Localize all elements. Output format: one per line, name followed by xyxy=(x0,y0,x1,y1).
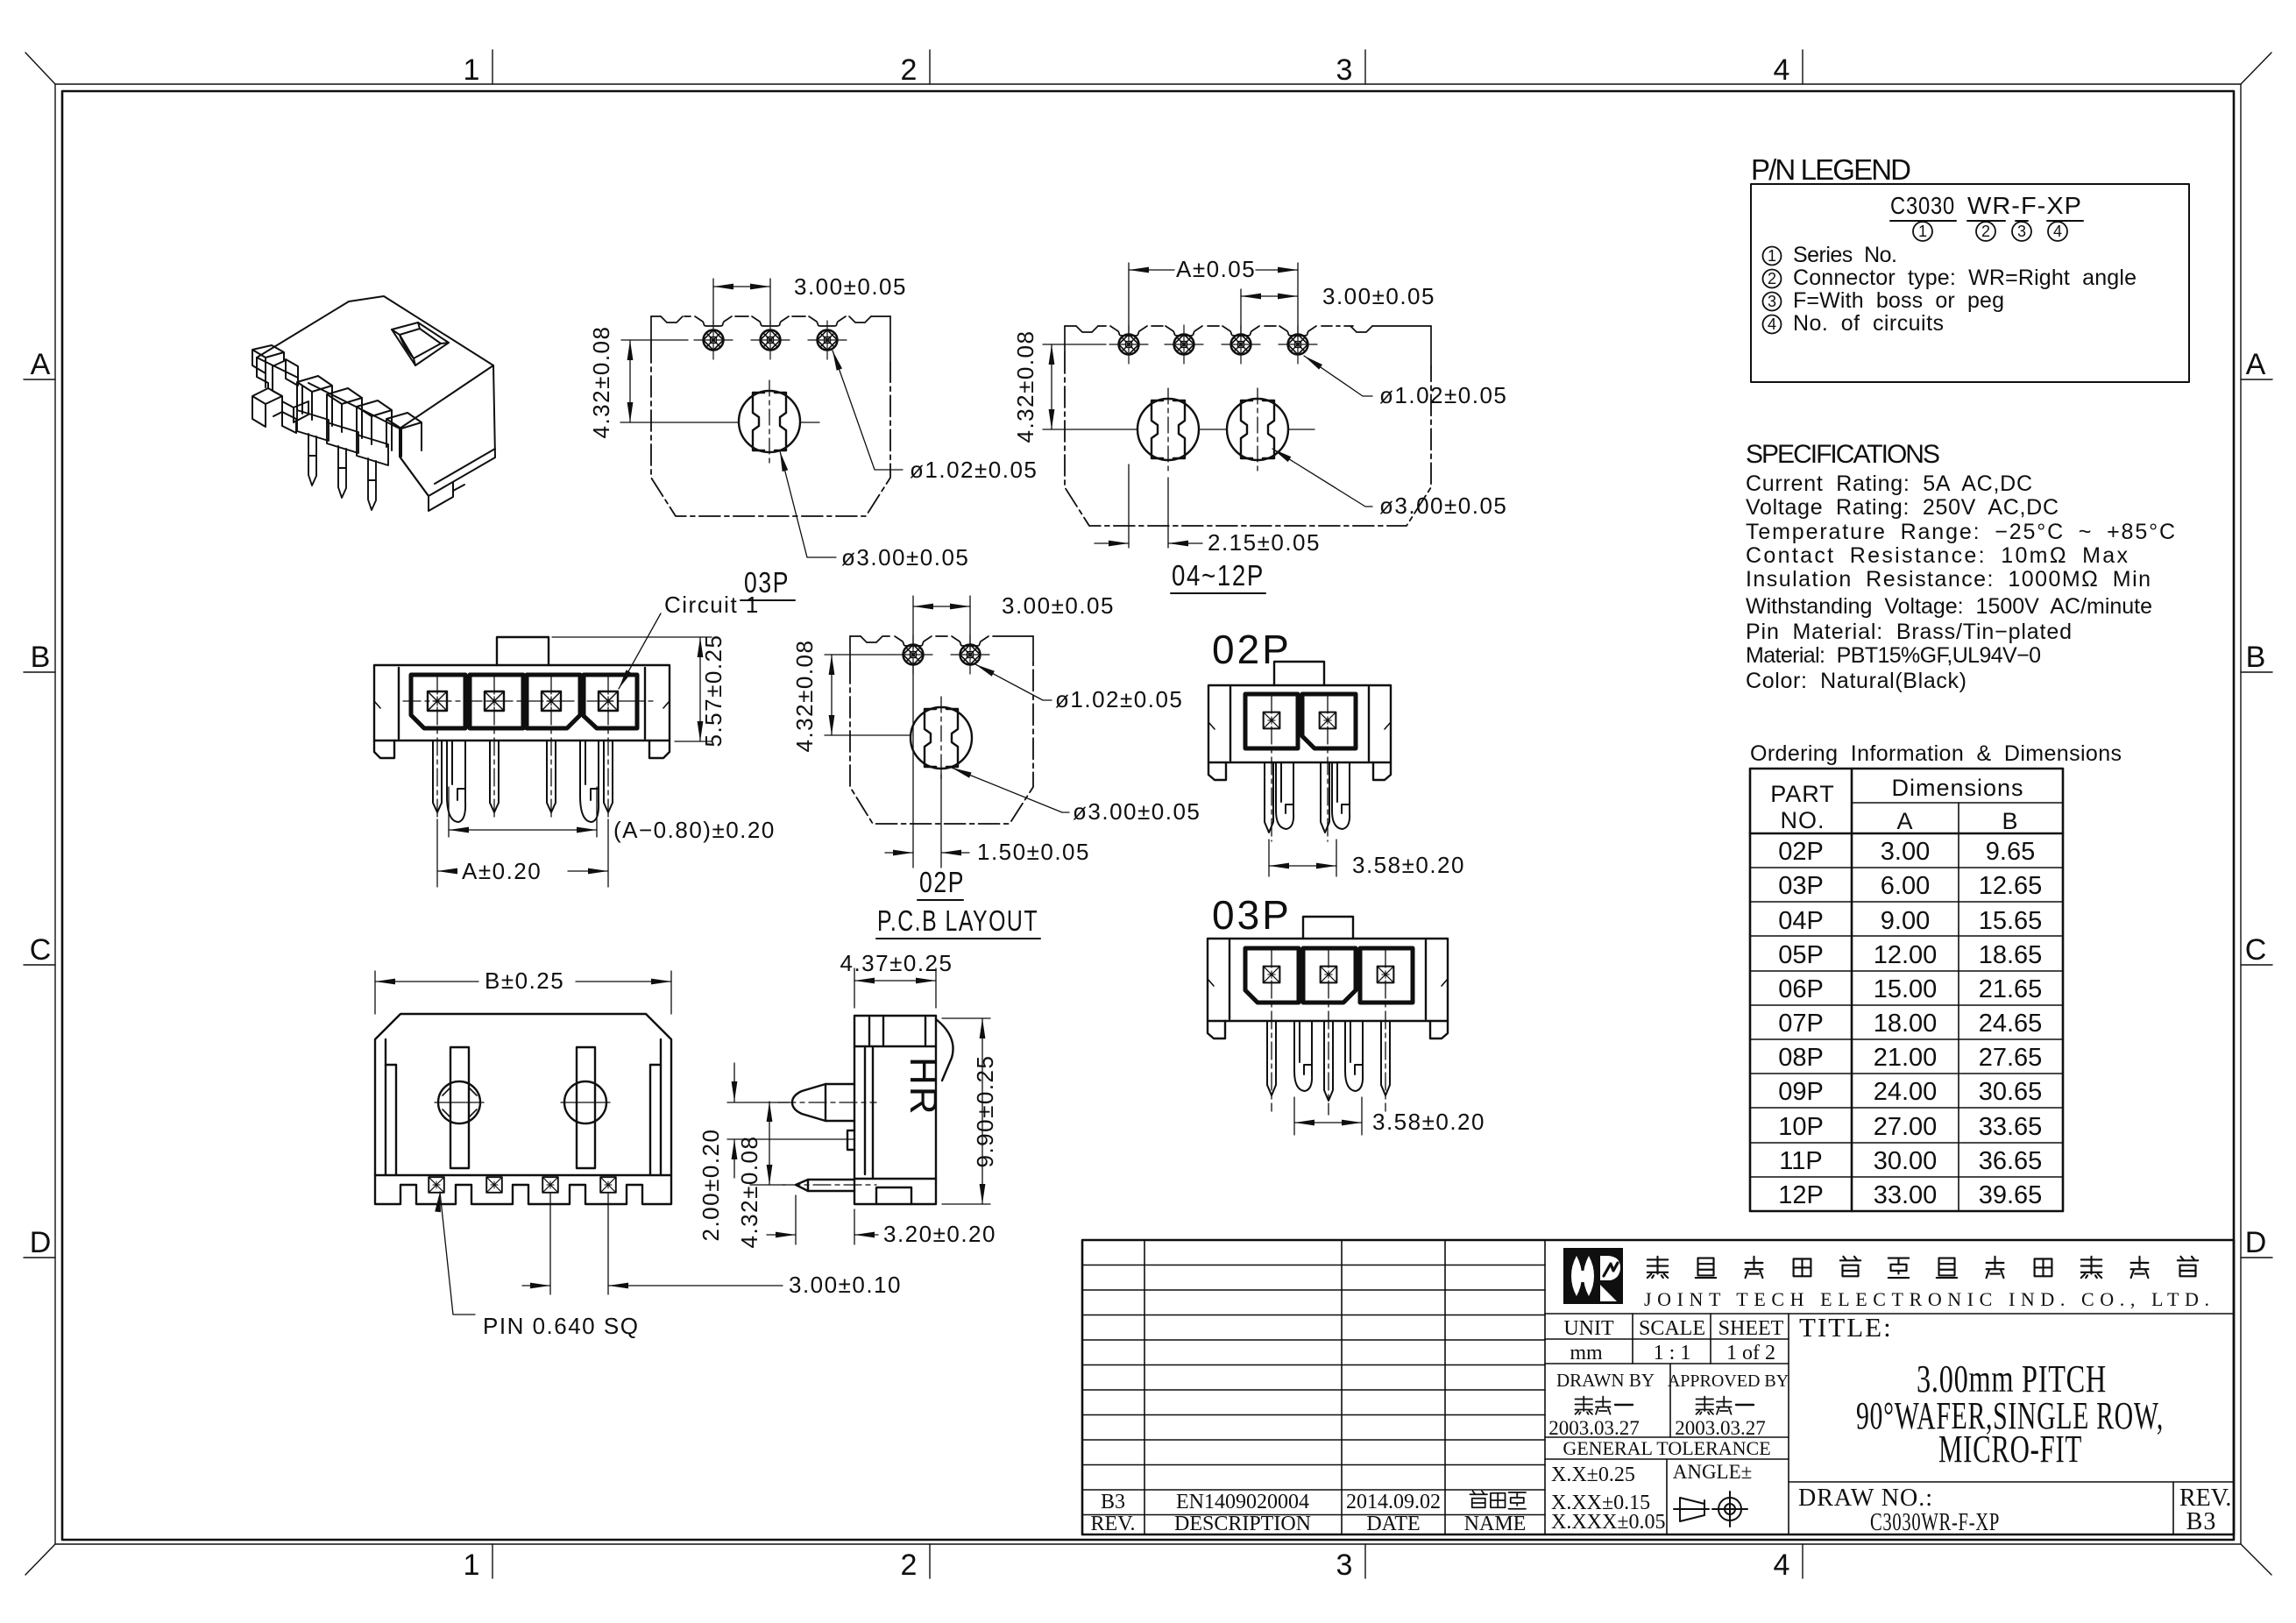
svg-text:04P: 04P xyxy=(1778,907,1824,935)
svg-text:2: 2 xyxy=(1981,223,1990,240)
svg-text:3.00: 3.00 xyxy=(1881,838,1930,866)
svg-text:Ordering Information & Dimensi: Ordering Information & Dimensions xyxy=(1750,741,2122,766)
svg-text:4: 4 xyxy=(1774,53,1790,87)
svg-text:REV.: REV. xyxy=(1091,1513,1136,1535)
svg-text:UNIT: UNIT xyxy=(1563,1317,1614,1340)
svg-text:4.37±0.25: 4.37±0.25 xyxy=(840,950,953,976)
svg-text:X.X±0.25: X.X±0.25 xyxy=(1551,1464,1635,1486)
svg-text:mm: mm xyxy=(1570,1342,1603,1364)
svg-text:4.32±0.08: 4.32±0.08 xyxy=(1012,330,1038,443)
svg-text:Voltage Rating: 250V AC,DC: Voltage Rating: 250V AC,DC xyxy=(1746,495,2059,520)
svg-text:24.65: 24.65 xyxy=(1979,1010,2043,1038)
svg-text:F=With boss or peg: F=With boss or peg xyxy=(1793,288,2005,313)
svg-text:07P: 07P xyxy=(1778,1010,1824,1038)
svg-text:1 of 2: 1 of 2 xyxy=(1726,1342,1775,1364)
svg-text:3.58±0.20: 3.58±0.20 xyxy=(1372,1109,1485,1135)
svg-text:D: D xyxy=(30,1226,52,1259)
svg-text:P.C.B LAYOUT: P.C.B LAYOUT xyxy=(877,904,1038,937)
svg-text:1: 1 xyxy=(464,1549,480,1582)
svg-text:B: B xyxy=(31,641,51,674)
svg-text:08P: 08P xyxy=(1778,1044,1824,1072)
svg-text:2003.03.27: 2003.03.27 xyxy=(1548,1417,1640,1439)
svg-text:02P: 02P xyxy=(1778,838,1824,866)
svg-text:2: 2 xyxy=(1768,270,1776,287)
svg-text:18.65: 18.65 xyxy=(1979,941,2043,969)
svg-text:C3030WR-F-XP: C3030WR-F-XP xyxy=(1870,1508,2000,1536)
svg-text:Circuit 1: Circuit 1 xyxy=(664,592,760,618)
svg-text:ø3.00±0.05: ø3.00±0.05 xyxy=(1379,493,1507,519)
svg-text:DATE: DATE xyxy=(1366,1513,1420,1535)
svg-text:WR-F-XP: WR-F-XP xyxy=(1967,192,2082,219)
svg-text:Dimensions: Dimensions xyxy=(1891,775,2023,801)
svg-text:03P: 03P xyxy=(1778,872,1824,900)
svg-text:27.65: 27.65 xyxy=(1979,1044,2043,1072)
svg-text:A: A xyxy=(31,348,51,381)
svg-text:Withstanding Voltage: 1500V AC: Withstanding Voltage: 1500V AC/minute xyxy=(1746,594,2153,619)
svg-text:B3: B3 xyxy=(1101,1491,1125,1513)
svg-text:EN1409020004: EN1409020004 xyxy=(1176,1491,1309,1513)
svg-text:1 : 1: 1 : 1 xyxy=(1654,1342,1691,1364)
svg-text:A: A xyxy=(1896,808,1913,834)
svg-text:Temperature Range: −25°C ~ +85: Temperature Range: −25°C ~ +85°C xyxy=(1746,520,2176,544)
svg-text:36.65: 36.65 xyxy=(1979,1147,2043,1175)
svg-text:33.00: 33.00 xyxy=(1874,1181,1938,1209)
svg-text:09P: 09P xyxy=(1778,1078,1824,1106)
svg-text:ø1.02±0.05: ø1.02±0.05 xyxy=(910,457,1038,483)
svg-text:05P: 05P xyxy=(1778,941,1824,969)
svg-text:21.65: 21.65 xyxy=(1979,975,2043,1003)
svg-text:12P: 12P xyxy=(1778,1181,1824,1209)
svg-text:Contact Resistance: 10mΩ Max: Contact Resistance: 10mΩ Max xyxy=(1746,543,2129,568)
svg-text:1: 1 xyxy=(464,53,480,87)
svg-text:11P: 11P xyxy=(1779,1147,1822,1175)
svg-text:5.57±0.25: 5.57±0.25 xyxy=(700,634,726,748)
svg-text:18.00: 18.00 xyxy=(1874,1010,1938,1038)
svg-text:30.00: 30.00 xyxy=(1874,1147,1938,1175)
svg-text:2003.03.27: 2003.03.27 xyxy=(1675,1417,1766,1439)
svg-text:3.00±0.05: 3.00±0.05 xyxy=(1322,283,1435,309)
svg-text:3: 3 xyxy=(1336,53,1353,87)
svg-text:4: 4 xyxy=(2053,223,2062,240)
svg-text:06P: 06P xyxy=(1778,975,1824,1003)
svg-text:DRAWN BY: DRAWN BY xyxy=(1556,1370,1655,1391)
svg-text:Series No.: Series No. xyxy=(1793,243,1898,267)
svg-text:1: 1 xyxy=(1768,247,1776,265)
svg-text:GENERAL TOLERANCE: GENERAL TOLERANCE xyxy=(1563,1437,1770,1459)
svg-text:12.00: 12.00 xyxy=(1874,941,1938,969)
svg-text:39.65: 39.65 xyxy=(1979,1181,2043,1209)
svg-text:(A−0.80)±0.20: (A−0.80)±0.20 xyxy=(613,817,776,843)
svg-text:B: B xyxy=(2002,808,2018,834)
svg-text:1: 1 xyxy=(1918,223,1927,240)
svg-text:2014.09.02: 2014.09.02 xyxy=(1346,1491,1441,1513)
svg-text:27.00: 27.00 xyxy=(1874,1113,1938,1141)
svg-text:P/N LEGEND: P/N LEGEND xyxy=(1751,153,1913,186)
svg-text:1.50±0.05: 1.50±0.05 xyxy=(977,839,1090,865)
svg-text:APPROVED BY: APPROVED BY xyxy=(1668,1371,1789,1391)
svg-text:PIN 0.640 SQ: PIN 0.640 SQ xyxy=(483,1313,639,1339)
svg-text:ø3.00±0.05: ø3.00±0.05 xyxy=(1073,798,1201,825)
svg-text:A: A xyxy=(2246,348,2266,381)
svg-text:10P: 10P xyxy=(1778,1113,1824,1141)
svg-text:SPECIFICATIONS: SPECIFICATIONS xyxy=(1746,440,1941,469)
svg-text:Material: PBT15%GF,UL94V−0: Material: PBT15%GF,UL94V−0 xyxy=(1746,643,2042,668)
svg-text:B3: B3 xyxy=(2186,1508,2217,1535)
svg-text:4.32±0.08: 4.32±0.08 xyxy=(588,326,614,439)
svg-text:6.00: 6.00 xyxy=(1881,872,1930,900)
svg-text:Connector type: WR=Right angle: Connector type: WR=Right angle xyxy=(1793,266,2137,290)
svg-text:C3030: C3030 xyxy=(1890,192,1955,219)
svg-text:3.20±0.20: 3.20±0.20 xyxy=(883,1221,996,1247)
svg-text:D: D xyxy=(2245,1226,2267,1259)
svg-text:2.00±0.20: 2.00±0.20 xyxy=(698,1129,724,1242)
svg-text:3.00±0.10: 3.00±0.10 xyxy=(789,1272,902,1298)
svg-text:SCALE: SCALE xyxy=(1639,1317,1705,1340)
svg-text:ø1.02±0.05: ø1.02±0.05 xyxy=(1055,686,1183,712)
svg-text:02P: 02P xyxy=(919,866,965,898)
svg-text:No. of circuits: No. of circuits xyxy=(1793,311,1945,336)
svg-text:X.XXX±0.05: X.XXX±0.05 xyxy=(1551,1511,1666,1534)
svg-text:2: 2 xyxy=(901,53,918,87)
svg-text:24.00: 24.00 xyxy=(1874,1078,1938,1106)
svg-text:03P: 03P xyxy=(1212,892,1292,938)
svg-text:4.32±0.08: 4.32±0.08 xyxy=(791,640,818,753)
svg-text:2: 2 xyxy=(901,1549,918,1582)
svg-text:ANGLE±: ANGLE± xyxy=(1673,1461,1753,1483)
svg-text:B: B xyxy=(2246,641,2266,674)
svg-text:2.15±0.05: 2.15±0.05 xyxy=(1208,529,1321,556)
svg-text:15.00: 15.00 xyxy=(1874,975,1938,1003)
svg-text:ø1.02±0.05: ø1.02±0.05 xyxy=(1379,382,1507,408)
svg-text:9.90±0.25: 9.90±0.25 xyxy=(972,1055,998,1168)
svg-text:3: 3 xyxy=(1768,293,1776,310)
svg-text:15.65: 15.65 xyxy=(1979,907,2043,935)
svg-text:30.65: 30.65 xyxy=(1979,1078,2043,1106)
svg-text:3.00±0.05: 3.00±0.05 xyxy=(1002,592,1115,619)
svg-text:C: C xyxy=(30,933,52,967)
svg-text:PART: PART xyxy=(1770,781,1835,807)
svg-text:NAME: NAME xyxy=(1464,1513,1527,1535)
svg-text:A±0.20: A±0.20 xyxy=(462,858,542,884)
svg-text:3.58±0.20: 3.58±0.20 xyxy=(1352,852,1465,878)
svg-text:9.65: 9.65 xyxy=(1986,838,2035,866)
svg-text:12.65: 12.65 xyxy=(1979,872,2043,900)
svg-text:ø3.00±0.05: ø3.00±0.05 xyxy=(841,544,969,571)
svg-text:4.32±0.08: 4.32±0.08 xyxy=(736,1136,762,1249)
svg-text:NO.: NO. xyxy=(1780,807,1825,833)
svg-text:Current Rating: 5A AC,DC: Current Rating: 5A AC,DC xyxy=(1746,471,2033,496)
svg-text:TITLE:: TITLE: xyxy=(1799,1312,1893,1343)
svg-text:33.65: 33.65 xyxy=(1979,1113,2043,1141)
svg-text:DESCRIPTION: DESCRIPTION xyxy=(1174,1513,1311,1535)
svg-text:Insulation Resistance: 1000MΩ: Insulation Resistance: 1000MΩ Min xyxy=(1746,567,2151,592)
svg-text:04~12P: 04~12P xyxy=(1172,559,1265,592)
svg-text:3.00±0.05: 3.00±0.05 xyxy=(794,273,907,300)
svg-text:C: C xyxy=(2245,933,2267,967)
svg-text:MICRO-FIT: MICRO-FIT xyxy=(1938,1428,2082,1471)
svg-text:SHEET: SHEET xyxy=(1718,1317,1784,1340)
svg-text:Color: Natural(Black): Color: Natural(Black) xyxy=(1746,669,1967,693)
svg-text:HR: HR xyxy=(902,1057,945,1116)
svg-text:A±0.05: A±0.05 xyxy=(1176,256,1256,282)
svg-text:B±0.25: B±0.25 xyxy=(485,967,564,994)
svg-text:4: 4 xyxy=(1774,1549,1790,1582)
svg-text:9.00: 9.00 xyxy=(1881,907,1930,935)
svg-text:02P: 02P xyxy=(1212,627,1292,672)
svg-text:3: 3 xyxy=(1336,1549,1353,1582)
svg-text:4: 4 xyxy=(1768,315,1776,333)
svg-text:Pin Material: Brass/Tin−plated: Pin Material: Brass/Tin−plated xyxy=(1746,620,2073,644)
svg-text:3: 3 xyxy=(2017,223,2026,240)
svg-text:21.00: 21.00 xyxy=(1874,1044,1938,1072)
